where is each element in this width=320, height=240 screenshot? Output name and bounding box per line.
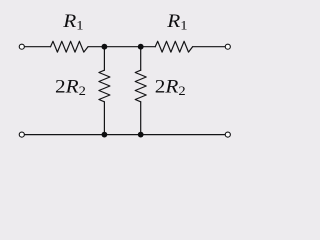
wire top-left lead — [24, 46, 50, 48]
wire node B to right R1 — [141, 46, 156, 48]
node D (junction dot, bottom-right) — [138, 132, 144, 138]
node B (junction dot, top-right) — [138, 44, 144, 50]
resistor R1 (left, zigzag) — [51, 41, 89, 52]
node A (junction dot, top-left) — [102, 44, 108, 50]
wire vertical lead upper (node B) — [140, 47, 142, 70]
wire top-middle (between left R1 and node B) — [88, 46, 141, 48]
wire bottom rail — [24, 134, 225, 136]
wire top-right lead — [193, 46, 226, 48]
terminal (open circle, bottom-right) — [225, 132, 230, 137]
resistor 2R2 (left, vertical zigzag) — [99, 70, 110, 102]
terminal (open circle, top-left) — [19, 44, 24, 49]
wire vertical lead upper (node A) — [103, 47, 105, 70]
wire vertical lead lower (right) — [140, 102, 142, 135]
resistor R1 (right, zigzag) — [155, 41, 192, 52]
resistor 2R2 (right, vertical zigzag) — [135, 70, 146, 102]
terminal (open circle, top-right) — [225, 44, 230, 49]
node C (junction dot, bottom-left) — [102, 132, 108, 138]
wire vertical lead lower (left) — [103, 102, 105, 135]
terminal (open circle, bottom-left) — [19, 132, 24, 137]
